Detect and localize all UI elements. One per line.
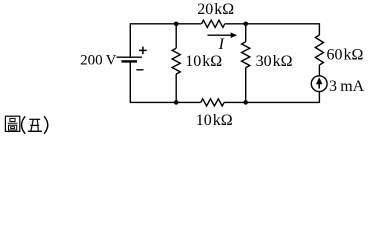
resistor 30kΩ (middle vertical zigzag) [242, 42, 250, 68]
resistor 60kΩ (right vertical zigzag) [315, 35, 323, 65]
battery V1 200V: plates [117, 57, 143, 61]
wire: bottom rail from 10k resistor to bottom-right corner up to current source [224, 92, 319, 103]
svg-text:10kΩ: 10kΩ [185, 53, 222, 70]
glyph 圖 outer box [5, 116, 19, 131]
resistor 10kΩ (left vertical zigzag) [172, 48, 180, 74]
node dot: top rail / 30k junction [243, 22, 248, 27]
svg-text:30kΩ: 30kΩ [256, 53, 293, 70]
wire: 10k vertical bottom lead to bottom rail [175, 74, 177, 102]
svg-text:20kΩ: 20kΩ [197, 1, 234, 18]
wire: battery bottom plate down and bottom rail to 10k bottom resistor [130, 61, 201, 102]
wire: left branch from battery top plate up and right along top rail to 20k resistor [130, 24, 201, 57]
svg-text:200 V: 200 V [80, 53, 117, 69]
glyph ( full-width [22, 116, 26, 133]
glyph ) full-width [44, 116, 48, 133]
battery plus sign [139, 47, 147, 55]
svg-text:I: I [218, 36, 225, 53]
svg-text:10kΩ: 10kΩ [196, 112, 233, 129]
node dot: bottom rail / 10k junction [174, 100, 179, 105]
wire: 60k bottom to current source top [318, 65, 320, 76]
wire: 30k vertical bottom lead to bottom rail [245, 68, 247, 103]
current arrow I [208, 32, 238, 38]
svg-text:60kΩ: 60kΩ [327, 47, 364, 64]
resistor 20kΩ (top horizontal zigzag) [202, 20, 225, 27]
wire: 30k vertical top lead from top rail [245, 24, 247, 42]
glyph 圖 innermost box [11, 127, 15, 129]
battery minus sign [136, 69, 143, 71]
caption 圖(五) drawn glyphs [5, 116, 47, 134]
wire: top rail from 20k resistor to top-right corner, down to 60k resistor [225, 24, 320, 35]
wire: 10k vertical top lead from top rail [175, 24, 177, 48]
glyph 五 [28, 119, 42, 131]
glyph 圖 top small box [10, 118, 15, 121]
glyph 圖 lower box [9, 125, 17, 130]
resistor 10kΩ (bottom horizontal zigzag) [201, 99, 224, 106]
glyph 圖 middle bar [8, 122, 18, 124]
node dot: top rail / 10k junction [174, 22, 179, 27]
svg-text:3 mA: 3 mA [329, 78, 365, 95]
current source 3mA (circle with up arrow) [311, 76, 327, 92]
node dot: bottom rail / 30k junction [243, 100, 248, 105]
